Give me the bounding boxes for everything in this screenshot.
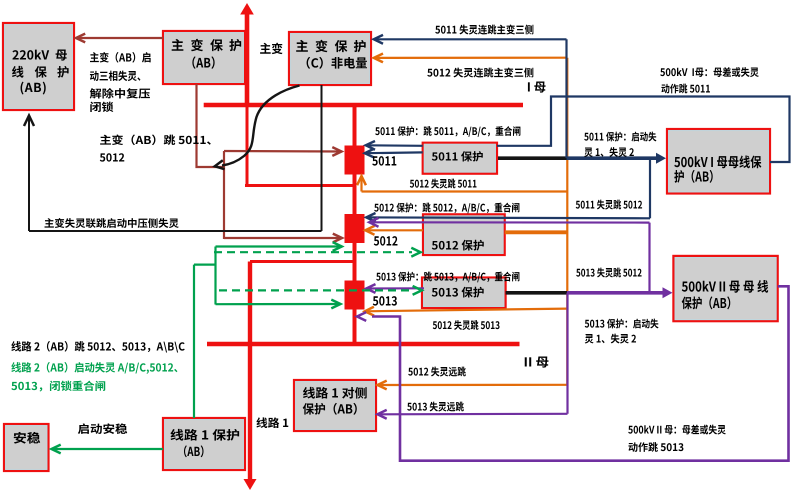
wire: transformer C non-elec down — [321, 85, 323, 231]
wire: 5013 prot starts bus II breaker-fail (purple thick) — [567, 287, 673, 298]
label: transformer AB starts 3-phase breaker-fail — [90, 52, 151, 112]
wire: line prot riser from line1 prot box (green) — [193, 265, 195, 418]
wire: transformer AB trip path down — [197, 84, 225, 167]
label: line2 blocks reclose (green) — [11, 381, 105, 392]
breaker 5011 (red square) — [345, 146, 365, 175]
box: main transformer protection (AB) — [163, 31, 245, 84]
wire: breaker-fail cross-trip to medium side — [29, 230, 322, 232]
wire: bus I trip arrow into 5011 (navy) — [366, 141, 423, 150]
box: 5011 protection relay — [423, 143, 497, 174]
box: 220kV bus protection (AB) — [3, 23, 74, 110]
wire: transformer trips 5012 (dark red arrow) — [224, 234, 342, 243]
wire: 5011 breaker-fail cross-trips transformer 3 sides (navy) — [374, 35, 567, 158]
label: bus II prot action — [628, 425, 726, 452]
label: 5012 BF trips 5011 — [410, 179, 477, 189]
label: line2 trips — [11, 341, 184, 352]
wire: transformer tee to breaker string — [245, 184, 355, 187]
wire: 5011 prot trips 5011 (navy arrow) — [365, 149, 423, 158]
wire: 5012 prot thick output (orange) — [505, 230, 568, 234]
wire: arrow up into 220kV bus protection — [24, 116, 34, 232]
box: 500kV bus I busbar protection (AB) — [667, 129, 770, 194]
wire: 5011 breaker-fail trips 5012 (navy arrow) — [366, 213, 650, 222]
breaker 5013 (red square) — [345, 281, 365, 310]
label: line 1 — [256, 417, 288, 428]
wire: line1 prot starts stability control (green arrow) — [52, 445, 164, 454]
label: 5013 BF remote trip — [407, 402, 464, 412]
label: transformer breaker-fail cross trip — [45, 218, 179, 228]
wire: 5012 prot trips 5012 (orange arrow) — [365, 226, 423, 235]
wire: 5012 breaker-fail cross-trips transformer (orange) — [374, 54, 568, 385]
box: 5013 protection relay — [422, 278, 506, 309]
box: 5012 protection relay — [423, 214, 505, 255]
label: breaker 5011 — [372, 156, 396, 166]
wire: bus II prot trip loop (purple) — [357, 286, 789, 460]
label: 5013 prot starts BF — [585, 319, 659, 344]
wire: breaker string vertical bus — [353, 105, 357, 344]
box: main transformer protection (C) non-electrical — [289, 32, 371, 85]
label: 5013 BF trips 5012 — [576, 268, 641, 278]
wire: 5013 breaker-fail remote trip riser (purple) — [566, 293, 568, 414]
wire: 5013 prot thick output (black segment) — [506, 291, 567, 295]
label: 5013 prot trip note — [376, 272, 519, 283]
wire: 5012 breaker-fail remote trip line1 (orange arrow) — [378, 381, 568, 390]
bus I (red busbar) — [204, 103, 523, 108]
wire: 5013 breaker-fail trips 5012 (purple) — [369, 218, 649, 293]
label: main transformer — [260, 43, 282, 54]
wire: 5012 breaker-fail trips 5011 (orange) — [357, 176, 567, 192]
box: stability control device — [4, 424, 49, 471]
label: line2 starts BF (green) — [11, 362, 177, 374]
wire: green trip riser — [214, 247, 216, 305]
label: breaker 5013 — [373, 296, 397, 306]
label: bus I — [528, 82, 546, 93]
wire: bus I prot trip loop (navy) — [497, 97, 790, 163]
label: breaker 5012 — [374, 236, 398, 246]
label: 5011 BF cross-trips transformer — [435, 25, 533, 35]
label: start stability — [78, 423, 127, 434]
wire: line1 feeder tee — [250, 260, 355, 263]
wire: transformer AB starts breaker-fail to 220kV bus prot (dark red arrow) — [76, 34, 163, 43]
wire: green trip arrow into 5013 — [216, 300, 341, 309]
label: 5012 BF trips 5013 — [433, 320, 500, 330]
label: transformer AB trips 5011 5012 — [100, 135, 211, 162]
wire: transformer trips 5011 (dark red arrow) — [224, 147, 342, 156]
label: 5011 prot starts BF — [584, 132, 656, 157]
wire: green trip arrow into 5012 — [216, 242, 342, 251]
wire: line2 starts breaker-fail 5013 (green dashed arrow) — [219, 286, 422, 295]
wire: 5013 prot trips 5013 (purple arrow) — [366, 284, 424, 293]
wire: 5013 breaker-fail remote trip line1 (purple arrow) — [378, 410, 568, 419]
label: 5011 prot trip note — [375, 126, 520, 137]
wire: 5012 breaker-fail trips 5013 (orange) — [365, 307, 568, 316]
wire: green link — [194, 264, 216, 266]
label: 5011 BF trips 5012 — [576, 200, 642, 210]
wire: line2 starts breaker-fail 5012 (green dashed arrow) — [214, 248, 421, 257]
wire: 5011 prot starts bus I breaker-fail (navy thick) — [567, 153, 667, 164]
label: bus II — [525, 357, 549, 368]
wire: 5011 breaker-fail trips 5012 riser (navy) — [649, 158, 651, 218]
breaker 5012 (red square) — [345, 214, 365, 243]
box: line 1 protection (AB) — [163, 418, 245, 470]
label: 5012 prot trip note — [374, 203, 519, 214]
wire: transformer trip riser — [223, 151, 225, 239]
wire: line 1 feeder with down arrow — [244, 262, 257, 491]
label: bus I prot action — [660, 67, 759, 93]
box: line 1 remote-end protection (AB) — [294, 380, 376, 431]
bus II (red busbar) — [207, 342, 520, 347]
label: 5012 BF remote trip — [408, 367, 466, 377]
wire: main transformer feeder with up arrow — [240, 3, 254, 186]
wire: 5011 prot thick output (black segment) — [498, 156, 567, 160]
box: 500kV bus II busbar protection (AB) — [673, 256, 777, 321]
label: 5012 BF cross-trips transformer — [427, 68, 533, 78]
wire: S-curve from transformer C prot to trip path — [215, 86, 300, 170]
